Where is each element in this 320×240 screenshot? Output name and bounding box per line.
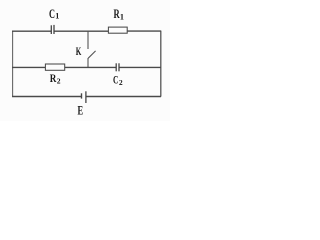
svg-text:R: R [50, 72, 57, 85]
svg-text:K: K [76, 46, 82, 58]
svg-text:2: 2 [119, 78, 123, 87]
svg-text:C: C [49, 7, 55, 21]
svg-text:2: 2 [57, 76, 61, 85]
svg-text:1: 1 [120, 12, 124, 21]
svg-text:E: E [78, 104, 84, 118]
svg-text:1: 1 [55, 12, 59, 21]
svg-text:C: C [113, 73, 118, 87]
svg-text:R: R [114, 7, 120, 21]
